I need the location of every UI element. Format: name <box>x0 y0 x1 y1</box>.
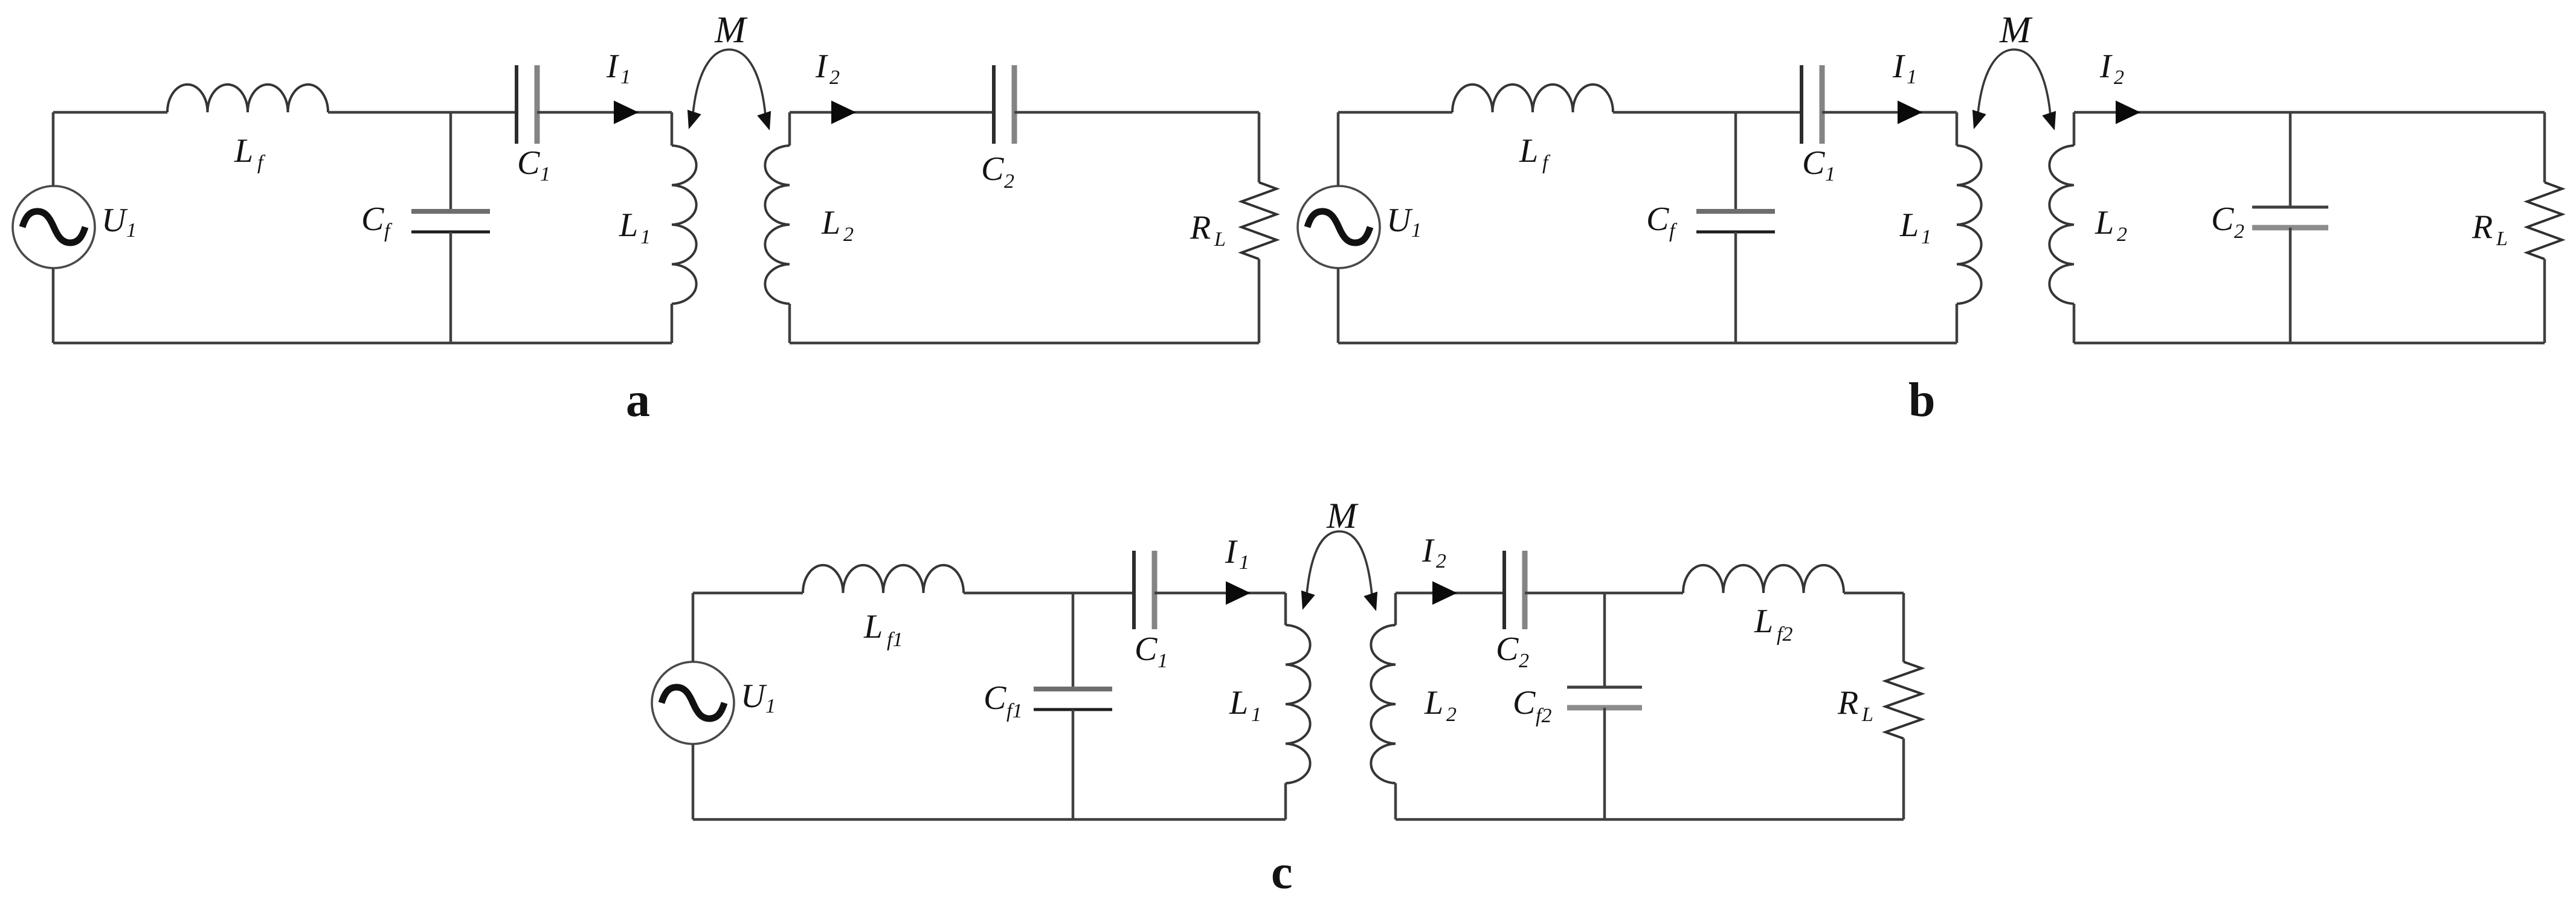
capacitor C1 (b) <box>1802 65 1822 144</box>
current arrow I1 (b) <box>1898 101 1922 124</box>
svg-text:1: 1 <box>1411 219 1422 242</box>
inductor Lf1 (c) <box>803 565 964 593</box>
svg-text:1: 1 <box>1825 163 1835 185</box>
wire (b) L2 to RL top <box>2074 111 2545 114</box>
resistor RL (a) <box>1241 182 1277 259</box>
svg-text:C: C <box>1135 630 1158 668</box>
label I2 (c) <box>1422 532 1446 572</box>
caption a <box>626 374 650 427</box>
capacitor Cf (b) branch wire upper <box>1734 112 1737 211</box>
svg-text:1: 1 <box>1158 650 1168 672</box>
AC source U1 (a) <box>13 186 95 268</box>
svg-text:1: 1 <box>640 226 651 248</box>
svg-text:1: 1 <box>1907 66 1917 88</box>
wire (b) C1 to L1 <box>1822 111 1957 114</box>
label M (c) <box>1326 496 1359 536</box>
svg-text:f1: f1 <box>1006 700 1022 722</box>
AC source U1 (c) <box>652 662 734 744</box>
svg-text:M: M <box>1999 10 2033 51</box>
label C1 (a) <box>517 144 550 185</box>
label M (b) <box>1999 10 2033 51</box>
capacitor C1 (a) <box>517 65 537 144</box>
capacitor C2 (b) branch wire upper <box>2289 112 2292 207</box>
label Lf (b) <box>1519 132 1551 174</box>
wire (c) C2 to Lf2 <box>1525 592 1683 595</box>
svg-text:L: L <box>863 608 883 646</box>
label Cf1 (c) <box>984 679 1022 722</box>
current arrow I1 (c) <box>1226 582 1251 605</box>
wire (a) L2 to C2 <box>790 111 994 114</box>
label Cf2 (c) <box>1513 684 1551 727</box>
wire (a) L1 top stub <box>671 112 674 146</box>
svg-text:L: L <box>1861 703 1873 726</box>
label U1 (a) <box>101 202 137 242</box>
inductor Lf (b) <box>1452 85 1613 112</box>
svg-text:1: 1 <box>126 219 137 242</box>
svg-text:M: M <box>714 10 748 51</box>
wire (b) bottom left <box>1338 342 1957 345</box>
label RL (b) <box>2471 208 2508 250</box>
wire (a) source top lead <box>52 112 55 186</box>
coil L1 (c) <box>1286 625 1310 783</box>
svg-text:U: U <box>741 678 767 715</box>
wire (c) C1 to L1 <box>1154 592 1286 595</box>
label I1 (c) <box>1225 533 1249 574</box>
svg-text:U: U <box>1386 202 1413 239</box>
coil L2 (c) <box>1371 625 1396 783</box>
svg-text:C: C <box>1513 684 1536 722</box>
capacitor C2 (c) <box>1504 551 1525 629</box>
svg-text:1: 1 <box>540 163 550 185</box>
label L1 (b) <box>1899 207 1931 248</box>
caption c <box>1271 846 1293 899</box>
wire (b) RL bottom lead <box>2543 259 2546 343</box>
wire (a) C1 to L1 <box>537 111 672 114</box>
label C2 (a) <box>981 150 1014 193</box>
capacitor Cf (b) <box>1696 211 1775 232</box>
label I2 (b) <box>2099 48 2124 89</box>
wire (c) top left <box>693 592 803 595</box>
coil L1 (a) <box>672 146 697 304</box>
label C1 (b) <box>1802 144 1835 185</box>
wire (a) L1 bottom stub <box>671 304 674 343</box>
svg-text:C: C <box>1802 144 1825 182</box>
capacitor Cf (a) <box>411 211 490 232</box>
svg-text:R: R <box>1190 209 1211 246</box>
svg-text:C: C <box>517 144 540 182</box>
current arrow I2 (b) <box>2116 101 2140 124</box>
capacitor Cf2 (c) branch wire lower <box>1603 708 1606 819</box>
label Cf (b) <box>1646 200 1678 242</box>
AC source U1 (b) <box>1298 186 1380 268</box>
inductor Lf2 (c) <box>1683 565 1844 593</box>
svg-text:I: I <box>1225 533 1238 571</box>
svg-text:C: C <box>1646 200 1669 238</box>
svg-text:R: R <box>1837 684 1858 722</box>
svg-text:I: I <box>2099 48 2113 85</box>
capacitor Cf2 (c) branch wire upper <box>1603 593 1606 687</box>
wire (c) RL bottom lead <box>1902 739 1905 819</box>
capacitor C2 (a) <box>994 65 1014 144</box>
wire (a) bottom right <box>790 342 1259 345</box>
capacitor Cf1 (c) branch wire upper <box>1072 593 1075 689</box>
svg-text:2: 2 <box>829 66 840 89</box>
label U1 (b) <box>1386 202 1422 242</box>
wire (c) RL top lead <box>1902 593 1905 662</box>
svg-text:I: I <box>606 48 619 85</box>
current arrow I1 (a) <box>614 101 639 124</box>
wire (a) RL top lead <box>1258 112 1261 182</box>
label Cf (a) <box>361 200 393 242</box>
capacitor Cf (a) branch wire lower <box>449 232 452 343</box>
wire (a) source bottom lead <box>52 268 55 343</box>
wire (b) source top lead <box>1337 112 1340 186</box>
label I2 (a) <box>815 48 840 89</box>
coil L2 (b) <box>2049 146 2074 304</box>
wire (b) RL top lead <box>2543 112 2546 182</box>
svg-text:L: L <box>234 132 253 170</box>
capacitor Cf2 (c) <box>1567 687 1642 708</box>
label C2 (b) <box>2211 200 2244 243</box>
svg-text:L: L <box>619 207 638 244</box>
svg-text:2: 2 <box>1436 550 1446 572</box>
capacitor Cf (b) branch wire lower <box>1734 232 1737 343</box>
svg-text:L: L <box>1754 603 1773 640</box>
svg-text:2: 2 <box>843 223 854 246</box>
svg-text:L: L <box>1899 207 1919 244</box>
svg-text:L: L <box>1229 684 1248 722</box>
label Lf1 (c) <box>863 608 903 651</box>
capacitor Cf1 (c) <box>1034 689 1112 710</box>
inductor Lf (a) <box>167 85 328 112</box>
svg-text:2: 2 <box>1004 170 1014 193</box>
svg-text:b: b <box>1908 374 1936 427</box>
svg-text:L: L <box>1214 228 1226 251</box>
wire (c) L1 bottom stub <box>1284 783 1287 819</box>
svg-text:L: L <box>2095 204 2114 242</box>
svg-text:M: M <box>1326 496 1359 536</box>
wire (c) bottom left <box>693 818 1286 821</box>
svg-text:2: 2 <box>2234 220 2244 243</box>
wire (c) L2 top stub <box>1394 593 1397 625</box>
wire (c) Lf2 to RL <box>1844 592 1904 595</box>
svg-text:1: 1 <box>1239 551 1249 574</box>
current arrow I2 (c) <box>1432 582 1457 605</box>
capacitor C2 (b) <box>2252 207 2328 228</box>
label RL (c) <box>1837 684 1873 726</box>
svg-text:I: I <box>1422 532 1435 569</box>
wire (c) L2 bottom stub <box>1394 783 1397 819</box>
svg-text:L: L <box>1424 684 1443 722</box>
svg-text:I: I <box>815 48 828 85</box>
wire (a) L2 bottom stub <box>788 304 791 343</box>
capacitor C2 (b) branch wire lower <box>2289 228 2292 343</box>
svg-text:L: L <box>1519 132 1538 170</box>
caption b <box>1908 374 1936 427</box>
coil L2 (a) <box>765 146 790 304</box>
resistor RL (c) <box>1885 662 1922 739</box>
label U1 (c) <box>741 678 776 717</box>
svg-text:C: C <box>2211 200 2234 238</box>
wire (a) top left <box>53 111 167 114</box>
svg-text:R: R <box>2471 208 2493 246</box>
wire (b) Lf to C1 <box>1613 111 1802 114</box>
label L1 (a) <box>619 207 651 248</box>
wire (a) bottom left <box>53 342 672 345</box>
svg-text:2: 2 <box>1446 703 1457 726</box>
wire (a) RL bottom lead <box>1258 259 1261 343</box>
svg-text:C: C <box>361 200 384 238</box>
wire (c) source top lead <box>692 593 695 662</box>
svg-text:C: C <box>981 150 1004 188</box>
svg-text:L: L <box>821 204 840 242</box>
svg-text:C: C <box>984 679 1006 717</box>
label L2 (a) <box>821 204 854 246</box>
svg-text:1: 1 <box>1251 703 1261 726</box>
mutual coupling arrow M (a) <box>687 50 771 130</box>
wire (c) bottom right <box>1396 818 1904 821</box>
label RL (a) <box>1190 209 1226 251</box>
svg-text:f2: f2 <box>1536 705 1551 727</box>
label C1 (c) <box>1135 630 1168 672</box>
label Lf2 (c) <box>1754 603 1792 646</box>
label L2 (c) <box>1424 684 1457 726</box>
wire (c) Lf1 to C1 <box>964 592 1134 595</box>
svg-text:1: 1 <box>765 695 776 717</box>
svg-text:f2: f2 <box>1777 623 1792 646</box>
wire (b) top left <box>1338 111 1452 114</box>
svg-text:2: 2 <box>2114 66 2124 89</box>
label L2 (b) <box>2095 204 2127 246</box>
wire (a) L2 top stub <box>788 112 791 146</box>
svg-text:U: U <box>101 202 128 239</box>
label M (a) <box>714 10 748 51</box>
svg-text:c: c <box>1271 846 1293 899</box>
mutual coupling arrow M (b) <box>1972 50 2056 130</box>
label I1 (b) <box>1892 48 1917 88</box>
wire (c) source bottom lead <box>692 744 695 819</box>
wire (b) L2 top stub <box>2073 112 2076 146</box>
wire (b) L1 top stub <box>1956 112 1959 146</box>
svg-text:L: L <box>2496 228 2508 250</box>
capacitor C1 (c) <box>1134 551 1154 629</box>
coil L1 (b) <box>1957 146 1982 304</box>
wire (b) L2 bottom stub <box>2073 304 2076 343</box>
svg-text:2: 2 <box>1519 650 1529 672</box>
svg-text:C: C <box>1496 630 1519 668</box>
svg-text:f1: f1 <box>887 629 903 651</box>
mutual coupling arrow M (c) <box>1301 531 1377 611</box>
label I1 (a) <box>606 48 631 88</box>
wire (b) L1 bottom stub <box>1956 304 1959 343</box>
capacitor Cf (a) branch wire upper <box>449 112 452 211</box>
wire (c) L1 top stub <box>1284 593 1287 625</box>
svg-text:2: 2 <box>2117 223 2127 246</box>
current arrow I2 (a) <box>831 101 856 124</box>
wire (b) bottom right <box>2074 342 2545 345</box>
svg-text:1: 1 <box>1921 226 1931 248</box>
wire (a) Lf to C1 <box>328 111 517 114</box>
label L1 (c) <box>1229 684 1261 726</box>
wire (c) L2 to C2 <box>1396 592 1504 595</box>
capacitor Cf1 (c) branch wire lower <box>1072 710 1075 819</box>
svg-text:1: 1 <box>620 66 631 88</box>
label C2 (c) <box>1496 630 1529 672</box>
svg-text:a: a <box>626 374 650 427</box>
resistor RL (b) <box>2527 182 2562 259</box>
wire (a) C2 to RL <box>1014 111 1259 114</box>
svg-text:I: I <box>1892 48 1905 85</box>
label Lf (a) <box>234 132 266 174</box>
wire (b) source bottom lead <box>1337 268 1340 343</box>
